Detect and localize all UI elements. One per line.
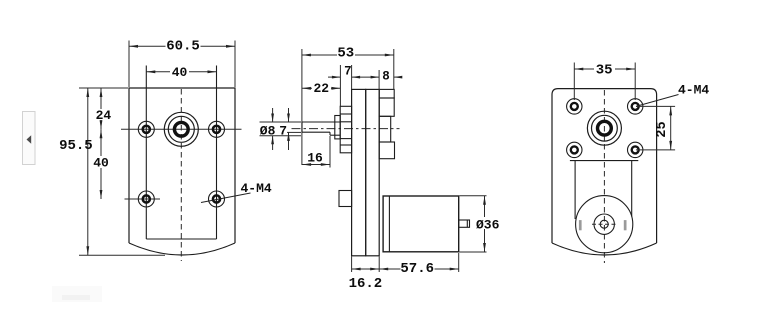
svg-text:4-M4: 4-M4 <box>241 181 272 196</box>
left view: vertical centerline <box>180 89 182 261</box>
svg-text:4-M4: 4-M4 <box>678 83 709 98</box>
dimension 22 <box>302 81 341 96</box>
middle view: lower-left block <box>339 191 352 207</box>
right view: motor-holder shoulder line <box>570 160 638 162</box>
svg-text:40: 40 <box>93 156 109 171</box>
right view: hub <box>587 111 621 145</box>
middle view: shaft washer <box>335 116 340 139</box>
middle view: second right block <box>379 98 394 116</box>
left view: gearbox body rectangle <box>146 66 216 240</box>
left view: mounting hole bottom-right <box>209 191 225 207</box>
svg-text:53: 53 <box>337 46 354 62</box>
left view: mounting hole top-left <box>138 121 154 137</box>
left view: output hub <box>164 112 198 146</box>
middle view: output shaft <box>302 122 340 135</box>
label 4-M4 left view leader <box>201 193 251 203</box>
right view: motor-holder left side <box>574 161 576 219</box>
left view: face plate outline <box>129 88 235 255</box>
faint bottom-left smudge <box>52 286 102 302</box>
svg-text:95.5: 95.5 <box>59 138 93 154</box>
right view: vertical centerline <box>603 90 605 263</box>
dimension 60.5 <box>129 39 235 88</box>
dimension 8 <box>379 69 402 89</box>
dimension 40 left <box>93 129 109 199</box>
middle view: shaft centerline <box>292 128 400 130</box>
right view: motor horizontal centerline <box>592 223 617 225</box>
svg-text:7: 7 <box>279 123 287 138</box>
left view: mounting hole top-right <box>209 121 225 137</box>
dimension D36 <box>460 196 501 252</box>
dimension 53 <box>302 46 394 90</box>
dimension 16 <box>302 136 330 168</box>
middle view: gearbox plate back layer <box>366 89 380 255</box>
dimension 7 <box>328 65 379 107</box>
left view: bottom hole row centerline <box>125 198 161 200</box>
svg-text:8: 8 <box>382 69 390 83</box>
svg-text:24: 24 <box>96 108 112 123</box>
dimension D8 and 7 shaft <box>259 108 301 150</box>
middle view: motor body <box>383 196 459 252</box>
dimension 95.5 <box>59 88 165 255</box>
middle view: lower-right block <box>379 142 394 159</box>
dimension 25 <box>636 106 675 149</box>
middle view: bearing boss block <box>379 116 391 142</box>
label 4-M4 right view leader <box>636 95 679 107</box>
right view: hole bottom-left <box>567 142 582 157</box>
middle view: motor rear shaft nub <box>459 220 470 227</box>
dimension 35 <box>574 63 635 101</box>
right view: motor-holder right side <box>631 161 633 217</box>
right view: hole top-right <box>628 99 643 114</box>
svg-text:40: 40 <box>172 65 188 80</box>
right view: motor can notch right <box>624 220 627 230</box>
right view: back plate outline <box>552 89 657 255</box>
middle view: gearbox plate front layer <box>352 89 366 255</box>
middle view: top-right block <box>379 89 394 98</box>
svg-text:35: 35 <box>596 63 613 79</box>
left view: top hole row centerline <box>121 128 242 130</box>
svg-text:7: 7 <box>344 65 352 79</box>
svg-text:Ø8: Ø8 <box>260 123 276 138</box>
svg-text:25: 25 <box>655 121 670 137</box>
svg-text:57.6: 57.6 <box>400 261 434 277</box>
right view: motor circle <box>576 196 633 253</box>
right view: motor can notch left <box>579 220 582 230</box>
svg-text:16.2: 16.2 <box>349 276 383 292</box>
right view: hole bottom-right <box>628 142 643 157</box>
right view: hole top-left <box>567 99 582 114</box>
dimension 16.2 <box>349 257 383 293</box>
carousel prev arrow button <box>23 112 36 165</box>
left view: mounting hole bottom-left <box>138 191 154 207</box>
svg-text:60.5: 60.5 <box>166 39 200 55</box>
svg-text:Ø36: Ø36 <box>476 218 500 233</box>
dimension 24 <box>96 88 112 129</box>
svg-text:16: 16 <box>307 151 323 166</box>
middle view: left extension line (53/22/16) <box>301 49 303 165</box>
dimension 40 top <box>146 65 216 80</box>
middle view: hub boss <box>340 106 351 153</box>
dimension 57.6 <box>379 253 459 277</box>
svg-text:22: 22 <box>313 81 329 96</box>
